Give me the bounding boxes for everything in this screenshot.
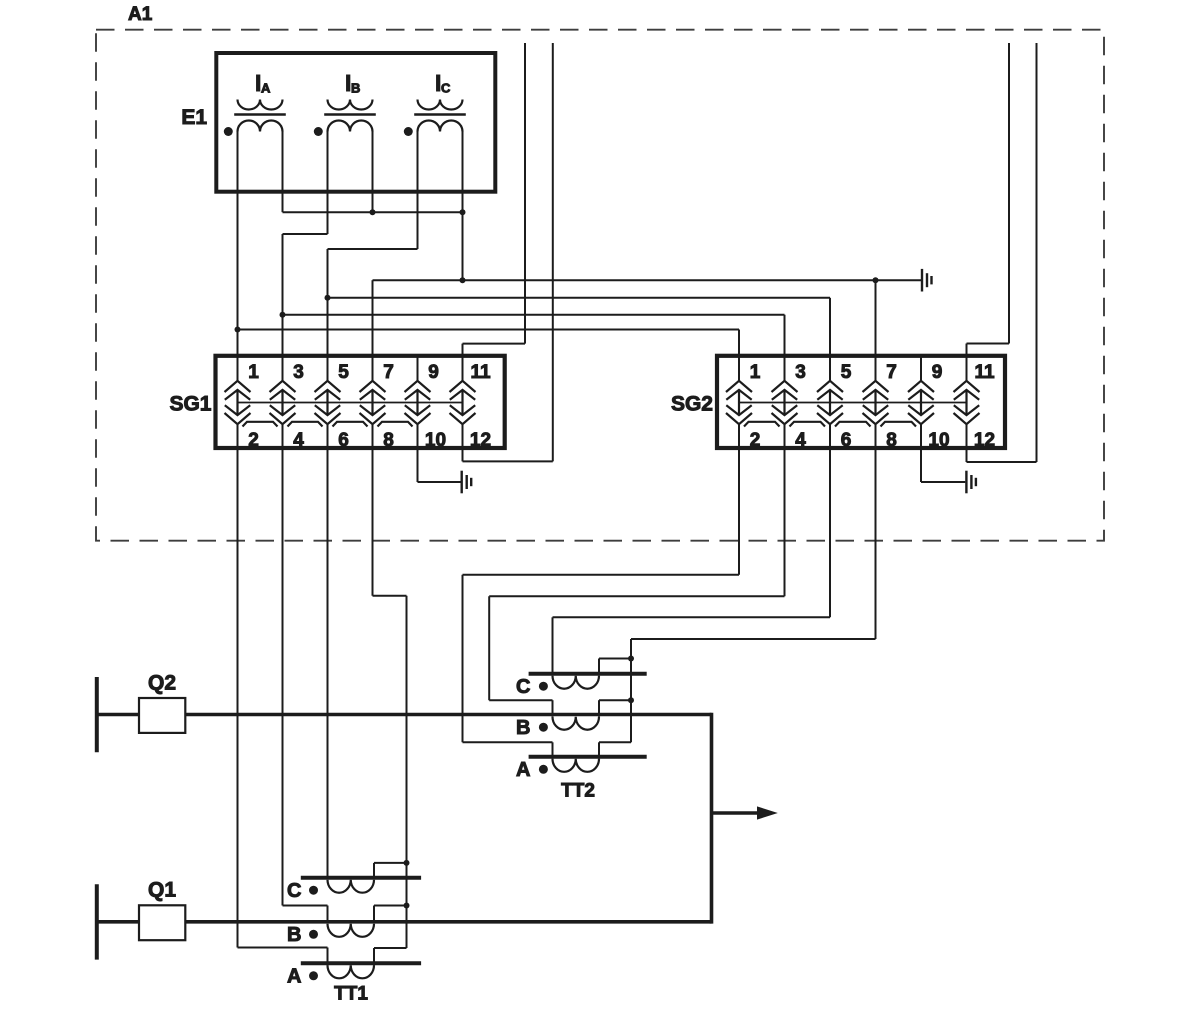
svg-text:TT2: TT2 [561, 781, 595, 802]
svg-text:B: B [351, 81, 360, 96]
svg-text:SG1: SG1 [169, 392, 211, 415]
svg-text:12: 12 [470, 430, 491, 451]
svg-text:4: 4 [795, 430, 806, 451]
svg-text:B: B [287, 924, 301, 946]
svg-text:3: 3 [795, 362, 806, 383]
svg-text:C: C [287, 880, 301, 902]
svg-text:12: 12 [974, 430, 995, 451]
svg-text:5: 5 [338, 362, 349, 383]
svg-text:1: 1 [248, 362, 259, 383]
svg-text:4: 4 [293, 430, 304, 451]
svg-text:7: 7 [383, 362, 394, 383]
svg-text:SG2: SG2 [671, 392, 713, 415]
svg-text:B: B [516, 717, 530, 739]
svg-text:C: C [441, 81, 451, 96]
svg-text:1: 1 [750, 362, 761, 383]
svg-text:9: 9 [428, 362, 439, 383]
svg-text:9: 9 [932, 362, 943, 383]
svg-text:6: 6 [841, 430, 852, 451]
svg-text:A1: A1 [128, 4, 153, 25]
svg-text:11: 11 [470, 362, 491, 383]
svg-text:7: 7 [886, 362, 897, 383]
svg-text:Q2: Q2 [148, 671, 176, 694]
svg-text:A: A [287, 966, 301, 988]
svg-text:10: 10 [425, 430, 446, 451]
svg-text:10: 10 [928, 430, 949, 451]
svg-text:5: 5 [841, 362, 852, 383]
svg-text:8: 8 [886, 430, 897, 451]
svg-text:11: 11 [974, 362, 995, 383]
svg-text:E1: E1 [181, 106, 207, 129]
svg-text:A: A [261, 81, 271, 96]
svg-text:A: A [516, 759, 530, 781]
svg-text:8: 8 [383, 430, 394, 451]
svg-text:TT1: TT1 [334, 983, 368, 1004]
svg-text:2: 2 [248, 430, 259, 451]
svg-text:3: 3 [293, 362, 304, 383]
svg-text:C: C [516, 676, 530, 698]
svg-text:6: 6 [338, 430, 349, 451]
svg-text:Q1: Q1 [148, 878, 176, 901]
svg-text:2: 2 [750, 430, 761, 451]
